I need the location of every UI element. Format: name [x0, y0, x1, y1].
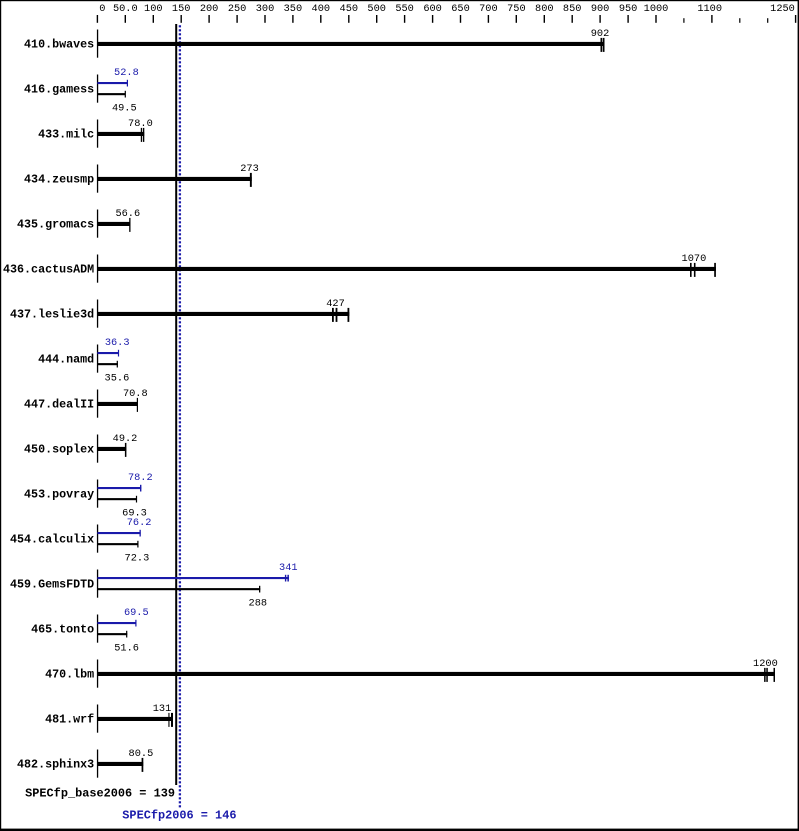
svg-text:416.gamess: 416.gamess: [24, 82, 94, 96]
svg-text:131: 131: [153, 703, 172, 715]
svg-text:1000: 1000: [644, 3, 669, 15]
svg-text:410.bwaves: 410.bwaves: [24, 37, 94, 51]
svg-text:100: 100: [144, 3, 163, 15]
svg-text:250: 250: [228, 3, 247, 15]
svg-text:51.6: 51.6: [114, 642, 139, 654]
svg-text:444.namd: 444.namd: [38, 352, 94, 366]
svg-text:1100: 1100: [697, 3, 722, 15]
svg-text:550: 550: [395, 3, 414, 15]
svg-text:49.5: 49.5: [112, 102, 137, 114]
SPECfp2006 mean dotted line (146): [179, 25, 181, 807]
svg-text:453.povray: 453.povray: [24, 487, 94, 501]
svg-text:427: 427: [326, 298, 345, 310]
svg-text:150: 150: [172, 3, 191, 15]
svg-text:750: 750: [507, 3, 526, 15]
svg-text:49.2: 49.2: [113, 433, 138, 445]
svg-text:35.6: 35.6: [105, 372, 130, 384]
svg-text:900: 900: [591, 3, 610, 15]
x axis ticks and labels: [97, 15, 98, 23]
svg-text:36.3: 36.3: [105, 337, 130, 349]
svg-text:72.3: 72.3: [125, 552, 150, 564]
svg-text:465.tonto: 465.tonto: [31, 622, 94, 636]
svg-text:650: 650: [451, 3, 470, 15]
svg-text:700: 700: [479, 3, 498, 15]
svg-text:454.calculix: 454.calculix: [10, 532, 94, 546]
svg-text:SPECfp2006 = 146: SPECfp2006 = 146: [122, 809, 236, 823]
svg-text:1250: 1250: [770, 3, 795, 15]
svg-text:1070: 1070: [682, 253, 707, 265]
svg-text:459.GemsFDTD: 459.GemsFDTD: [10, 577, 94, 591]
svg-text:600: 600: [423, 3, 442, 15]
svg-text:500: 500: [367, 3, 386, 15]
svg-text:56.6: 56.6: [115, 208, 140, 220]
svg-text:200: 200: [200, 3, 219, 15]
svg-text:433.milc: 433.milc: [38, 127, 94, 141]
svg-text:78.2: 78.2: [128, 472, 153, 484]
svg-text:350: 350: [284, 3, 303, 15]
svg-text:0: 0: [99, 3, 105, 15]
svg-text:800: 800: [535, 3, 554, 15]
border frame: [0, 0, 799, 1]
svg-text:436.cactusADM: 436.cactusADM: [3, 262, 94, 276]
svg-text:341: 341: [279, 562, 298, 574]
svg-text:470.lbm: 470.lbm: [45, 667, 94, 681]
svg-text:850: 850: [563, 3, 582, 15]
svg-text:435.gromacs: 435.gromacs: [17, 217, 94, 231]
SPECfp_base2006 mean line (139): [175, 24, 177, 785]
svg-text:450.soplex: 450.soplex: [24, 442, 94, 456]
svg-text:50.0: 50.0: [113, 3, 138, 15]
svg-text:76.2: 76.2: [127, 517, 152, 529]
svg-text:400: 400: [312, 3, 331, 15]
svg-text:902: 902: [591, 28, 610, 40]
svg-text:434.zeusmp: 434.zeusmp: [24, 172, 94, 186]
svg-text:52.8: 52.8: [114, 67, 139, 79]
svg-text:481.wrf: 481.wrf: [45, 712, 94, 726]
svg-text:288: 288: [249, 597, 268, 609]
svg-text:1200: 1200: [753, 658, 778, 670]
svg-text:300: 300: [256, 3, 275, 15]
svg-text:950: 950: [619, 3, 638, 15]
svg-text:69.5: 69.5: [124, 607, 149, 619]
svg-text:482.sphinx3: 482.sphinx3: [17, 757, 94, 771]
svg-text:437.leslie3d: 437.leslie3d: [10, 307, 94, 321]
svg-text:450: 450: [340, 3, 359, 15]
svg-text:273: 273: [240, 163, 259, 175]
svg-text:SPECfp_base2006 = 139: SPECfp_base2006 = 139: [25, 786, 175, 800]
svg-text:80.5: 80.5: [129, 748, 154, 760]
svg-text:78.0: 78.0: [128, 118, 153, 130]
svg-text:70.8: 70.8: [123, 388, 148, 400]
svg-text:447.dealII: 447.dealII: [24, 397, 94, 411]
